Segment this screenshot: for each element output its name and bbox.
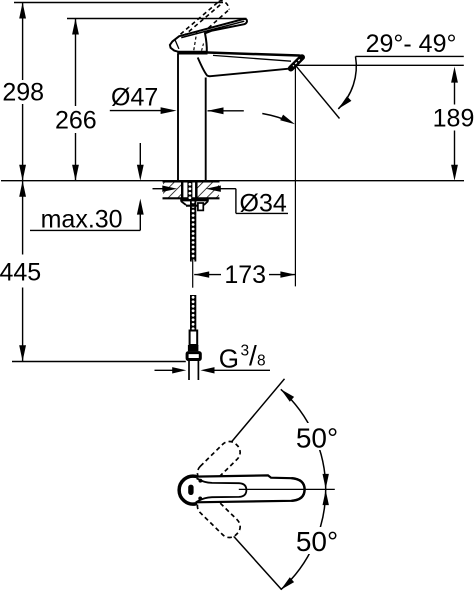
svg-text:50°: 50° xyxy=(296,423,338,454)
threaded rod below deck xyxy=(190,200,196,262)
svg-text:50°: 50° xyxy=(296,526,338,557)
handle rotated up (dashed) xyxy=(193,438,244,488)
swing arc upper xyxy=(281,389,326,489)
connector nut G3/8 xyxy=(187,353,200,360)
connector tube xyxy=(190,331,198,346)
body left edge xyxy=(177,54,179,181)
swing arc lower xyxy=(281,490,326,590)
dimension 173 xyxy=(194,66,295,289)
svg-text:298: 298 xyxy=(2,79,44,107)
lever raised (dashed) xyxy=(181,1,230,43)
head slot xyxy=(188,485,193,495)
extension line top (298) xyxy=(14,2,223,4)
spout angle arc arrow xyxy=(338,56,356,109)
connector collar xyxy=(188,345,199,351)
svg-text:8: 8 xyxy=(257,352,266,369)
svg-text:G: G xyxy=(219,344,239,374)
dimension 266 xyxy=(55,19,97,181)
dimension diameter 34 xyxy=(153,186,289,218)
spout tip extension line xyxy=(294,66,296,286)
aerator at spout tip (bold) xyxy=(291,57,302,68)
handle rotated down (dashed) xyxy=(193,491,244,541)
svg-text:Ø34: Ø34 xyxy=(240,190,287,218)
handle head cap (thick U arc) xyxy=(179,476,195,504)
head screw dots xyxy=(199,479,203,483)
faucet body top edge (bold) xyxy=(177,51,207,54)
annotation 29-49 degrees xyxy=(297,30,464,66)
handle top view (solid) xyxy=(195,475,268,502)
svg-text:173: 173 xyxy=(224,261,266,289)
faucet centerline segment xyxy=(192,259,194,288)
lever handle (solid) xyxy=(170,19,247,52)
lever back facet xyxy=(175,40,179,49)
dimension 298 xyxy=(2,3,44,181)
extension line lever tip (266) xyxy=(67,18,247,20)
svg-text:Ø47: Ø47 xyxy=(111,83,158,111)
white mask for 50 deg labels xyxy=(294,423,342,450)
spout inner line xyxy=(213,55,291,61)
lever hidden crease (dashed) xyxy=(194,31,197,50)
spout angle diagonal xyxy=(296,66,339,118)
dimension 189 xyxy=(433,67,475,181)
lever neck crease (dashed) xyxy=(202,44,204,52)
threaded rod lower segment xyxy=(190,295,196,331)
dimension G3/8 xyxy=(155,340,271,374)
swing rays 50 degrees xyxy=(192,379,285,490)
dimension diameter 47 xyxy=(110,83,244,114)
deck top surface reference arrow xyxy=(137,143,144,181)
svg-text:3: 3 xyxy=(241,342,250,359)
handle centerline xyxy=(239,488,335,490)
spout top edge xyxy=(204,52,303,57)
washer under deck xyxy=(180,200,209,206)
swivel arrow to spout axis xyxy=(262,114,295,125)
lever top inner line xyxy=(181,21,244,37)
arc arrowheads xyxy=(281,389,294,401)
bottom extension line at G3/8 level xyxy=(12,361,186,363)
svg-text:29°- 49°: 29°- 49° xyxy=(366,30,457,58)
svg-text:189: 189 xyxy=(433,104,475,132)
svg-text:/: / xyxy=(249,340,257,371)
dimension 445 xyxy=(0,181,41,362)
dimension max.30 xyxy=(30,199,144,234)
svg-text:max.30: max.30 xyxy=(41,206,123,234)
mounting shank walls xyxy=(181,182,183,199)
handle inner contour xyxy=(197,478,247,502)
svg-text:445: 445 xyxy=(0,259,41,287)
countertop deck line xyxy=(1,180,464,182)
hose below nut xyxy=(188,361,190,380)
fitting block right of rod xyxy=(198,203,203,210)
threaded rod in deck xyxy=(187,182,192,200)
spout underside xyxy=(198,58,290,77)
svg-text:266: 266 xyxy=(55,106,97,134)
body right edge xyxy=(205,78,207,181)
